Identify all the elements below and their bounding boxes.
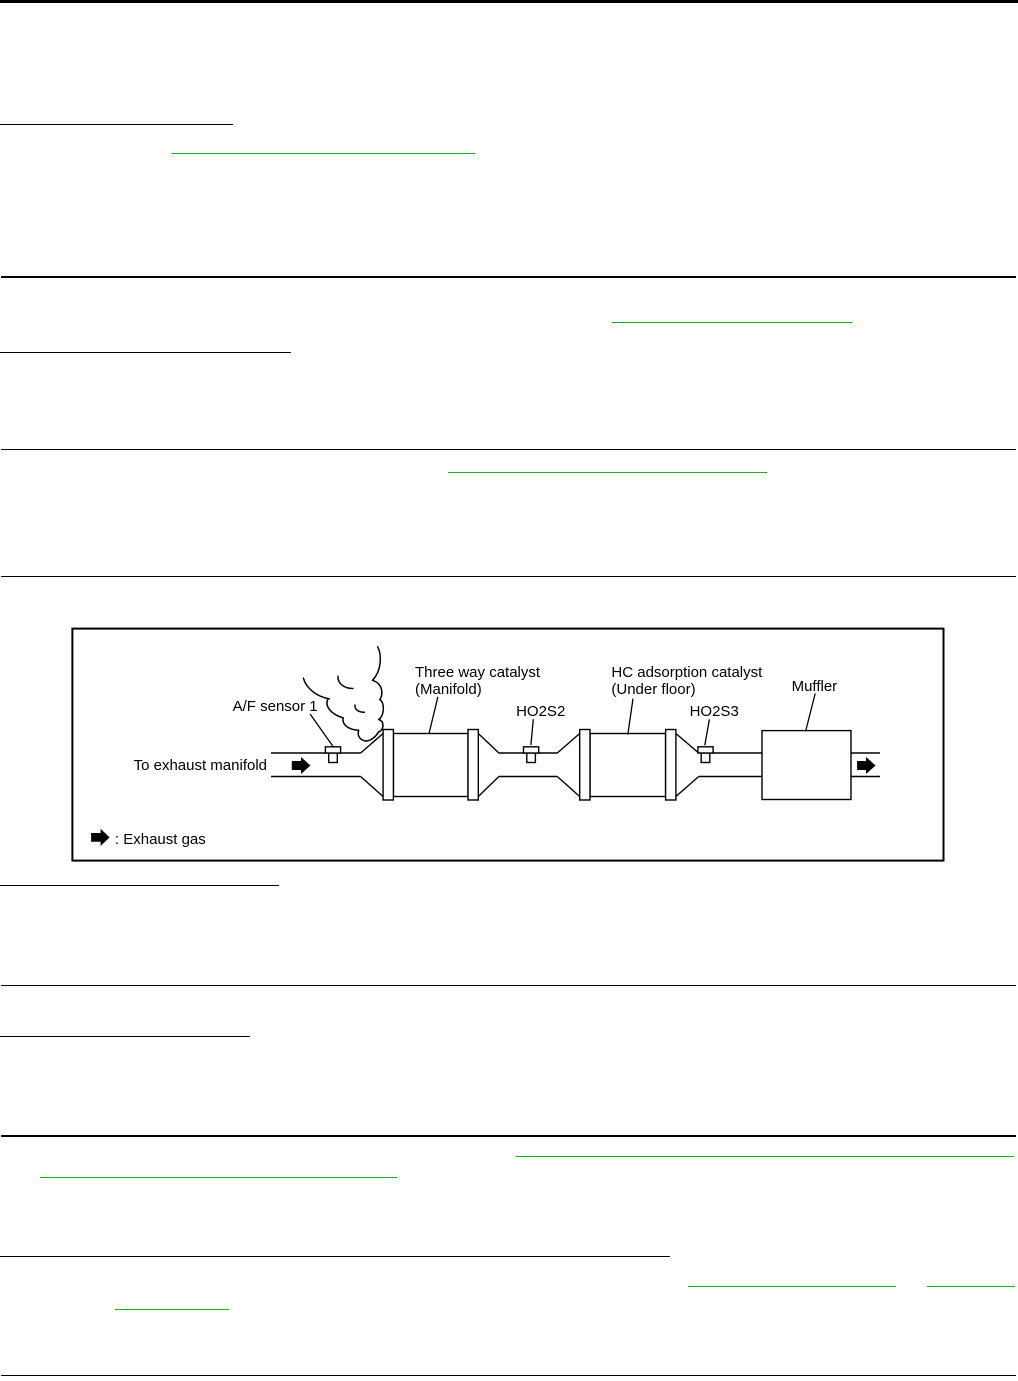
inlet flow arrow — [292, 757, 311, 774]
HC adsorption catalyst leader line — [628, 699, 633, 735]
HO2S2 sensor symbol — [524, 747, 539, 763]
svg-text:HC adsorption catalyst: HC adsorption catalyst — [611, 664, 763, 681]
muffler leader line — [806, 694, 815, 731]
legend flow arrow — [91, 829, 110, 846]
heading underline — [0, 352, 291, 353]
mid expansion cone wire — [557, 734, 579, 797]
horizontal rule — [1, 276, 1016, 277]
A/F sensor 1 symbol — [325, 747, 340, 763]
green link underline — [40, 1177, 397, 1178]
three way catalyst right flange — [468, 730, 478, 801]
three way catalyst leader line — [429, 697, 438, 734]
green link underline — [448, 472, 766, 473]
three way catalyst left flange — [383, 730, 393, 801]
heading underline — [0, 1036, 250, 1037]
inlet expansion cone wire — [361, 734, 384, 797]
exhaust smoke cloud — [303, 647, 383, 741]
HC adsorption catalyst left flange — [580, 730, 590, 801]
horizontal rule — [1, 449, 1016, 450]
svg-text:A/F sensor 1: A/F sensor 1 — [233, 698, 318, 715]
svg-text:To exhaust manifold: To exhaust manifold — [134, 757, 267, 774]
green link underline — [516, 1156, 1014, 1157]
HO2S2 leader line — [531, 719, 533, 745]
svg-text:Muffler: Muffler — [792, 678, 838, 695]
svg-text:: Exhaust gas: : Exhaust gas — [115, 831, 206, 848]
horizontal rule — [1, 1135, 1016, 1136]
green link underline — [927, 1286, 1016, 1287]
svg-text:(Under floor): (Under floor) — [611, 681, 695, 698]
A/F sensor leader line — [310, 714, 333, 746]
mid pipe wire — [499, 753, 557, 777]
horizontal rule — [1, 985, 1016, 986]
green link underline (hyperlink) — [172, 153, 475, 154]
top page border bar — [0, 0, 1018, 3]
HO2S3 leader line — [705, 719, 710, 745]
tail pipe wire — [851, 753, 880, 777]
three way catalyst body — [393, 734, 468, 797]
green link underline — [612, 322, 852, 323]
figure frame box — [72, 629, 943, 861]
outlet contraction cone wire — [676, 734, 699, 797]
horizontal rule — [1, 576, 1016, 577]
HC adsorption catalyst right flange — [666, 730, 676, 801]
pipe to muffler wire — [699, 753, 762, 777]
partial horizontal rule — [0, 1256, 670, 1257]
svg-text:Three way catalyst: Three way catalyst — [415, 664, 541, 681]
inlet pipe wire — [271, 753, 361, 777]
HC adsorption catalyst body — [590, 734, 666, 797]
green link underline — [688, 1286, 896, 1287]
green link underline — [115, 1309, 229, 1310]
svg-text:HO2S2: HO2S2 — [516, 703, 565, 720]
bottom horizontal rule — [1, 1375, 1016, 1376]
outlet flow arrow — [857, 757, 876, 774]
heading underline — [0, 885, 279, 886]
muffler box — [762, 731, 851, 800]
mid contraction cone wire — [478, 734, 499, 797]
heading underline (section title) — [0, 124, 233, 125]
svg-text:HO2S3: HO2S3 — [690, 703, 739, 720]
svg-text:(Manifold): (Manifold) — [415, 681, 482, 698]
HO2S3 sensor symbol — [698, 747, 713, 763]
